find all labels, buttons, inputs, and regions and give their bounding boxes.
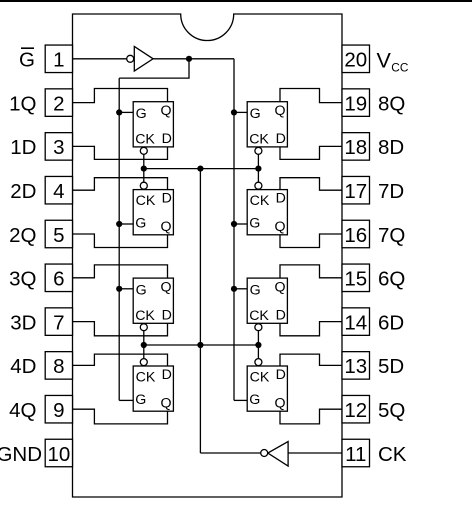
svg-text:19: 19 xyxy=(344,92,367,115)
bubble CK latch3 xyxy=(140,324,147,331)
wire pin8 4D xyxy=(73,354,168,366)
latch 8 (8D/8Q) xyxy=(247,102,287,148)
wire G stub latch1 xyxy=(119,111,133,113)
pin 12 box xyxy=(342,395,370,423)
pin 8 box xyxy=(45,352,72,380)
svg-text:7: 7 xyxy=(53,311,64,334)
bubble G-bar inverter input xyxy=(127,55,134,62)
svg-text:17: 17 xyxy=(344,180,367,203)
wire pin14 6D xyxy=(280,322,342,336)
svg-text:2D: 2D xyxy=(10,180,36,203)
wire pin6 3Q xyxy=(73,265,168,278)
svg-text:CK: CK xyxy=(136,193,156,209)
pin 6 box xyxy=(45,264,72,292)
svg-text:1Q: 1Q xyxy=(9,92,36,115)
junction left G bus latch3 xyxy=(116,286,122,292)
junction CK row B left xyxy=(141,342,147,348)
svg-text:9: 9 xyxy=(53,399,64,422)
junction CK row A left xyxy=(141,166,147,172)
latch 4 (4D/4Q) xyxy=(133,366,173,411)
svg-text:G: G xyxy=(249,216,260,232)
wire pin16 7Q xyxy=(280,234,342,248)
svg-text:CC: CC xyxy=(391,60,409,74)
svg-text:CK: CK xyxy=(250,193,270,209)
svg-text:5Q: 5Q xyxy=(378,399,405,422)
svg-text:6: 6 xyxy=(53,268,64,291)
wire G stub latch5 xyxy=(234,399,247,401)
latch 1 (1D/1Q) xyxy=(133,102,173,148)
pin 2 box xyxy=(45,89,72,117)
svg-text:D: D xyxy=(276,191,286,207)
svg-text:13: 13 xyxy=(344,355,367,378)
svg-text:D: D xyxy=(276,367,286,383)
pin 4 box xyxy=(45,176,72,204)
wire pin17 7D xyxy=(280,178,342,191)
bubble CK latch4 xyxy=(140,359,147,366)
junction left G bus latch1 xyxy=(116,109,122,115)
wire pin15 6Q xyxy=(280,265,342,278)
wire G stub latch8 xyxy=(234,111,247,113)
wire CK stub latch4 xyxy=(143,345,145,359)
svg-text:G: G xyxy=(250,283,261,299)
svg-text:3: 3 xyxy=(53,136,64,159)
junction CK row B bus xyxy=(197,342,203,348)
wire CK stub latch3 xyxy=(143,331,145,345)
wire pin4 2D xyxy=(73,178,168,191)
svg-text:Q: Q xyxy=(275,219,286,235)
junction right G bus latch8 xyxy=(231,109,237,115)
svg-text:5D: 5D xyxy=(378,355,404,378)
svg-text:Q: Q xyxy=(161,395,172,411)
svg-text:14: 14 xyxy=(344,311,367,334)
svg-text:G: G xyxy=(136,106,147,122)
svg-text:3Q: 3Q xyxy=(9,268,36,291)
bubble CK latch7 xyxy=(255,182,262,189)
junction CK row A right xyxy=(255,166,261,172)
svg-text:4: 4 xyxy=(53,180,64,203)
bubble CK latch5 xyxy=(255,359,262,366)
svg-text:Q: Q xyxy=(275,103,286,119)
svg-text:CK: CK xyxy=(135,132,155,148)
pin 17 box xyxy=(342,176,370,204)
svg-text:8D: 8D xyxy=(378,136,404,159)
svg-text:Q: Q xyxy=(161,219,172,235)
svg-text:4Q: 4Q xyxy=(9,399,36,422)
bubble CK latch6 xyxy=(255,324,262,331)
svg-text:GND: GND xyxy=(0,443,42,466)
svg-text:20: 20 xyxy=(344,49,367,72)
pin 11 box xyxy=(342,439,370,467)
latch 6 (6D/6Q) xyxy=(247,278,287,324)
bubble CK inverter output xyxy=(261,450,268,457)
wire pin5 2Q xyxy=(73,234,168,248)
pin 15 box xyxy=(342,264,370,292)
junction left G bus latch2 xyxy=(116,221,122,227)
junction right G bus latch7 xyxy=(231,221,237,227)
bubble CK latch2 xyxy=(140,182,147,189)
svg-text:D: D xyxy=(276,131,286,147)
wire CK stub latch5 xyxy=(257,345,259,359)
pin 18 box xyxy=(342,133,370,161)
wire CK stub latch1 xyxy=(143,154,145,168)
wire G stub latch7 xyxy=(234,223,247,225)
svg-text:D: D xyxy=(162,308,172,324)
svg-text:Q: Q xyxy=(161,103,172,119)
svg-text:4D: 4D xyxy=(10,355,36,378)
pin 3 box xyxy=(45,133,72,161)
svg-text:5: 5 xyxy=(53,224,64,247)
svg-text:D: D xyxy=(162,131,172,147)
svg-text:G: G xyxy=(250,106,261,122)
wire pin18 8D xyxy=(280,146,342,159)
wire pin12 5Q xyxy=(280,409,342,424)
svg-text:Q: Q xyxy=(275,280,286,296)
wire CK stub latch6 xyxy=(257,331,259,345)
svg-text:G: G xyxy=(19,49,35,72)
wire CK bus vertical xyxy=(199,169,201,453)
latch 5 (5D/5Q) xyxy=(247,366,287,411)
wire CK inverter output xyxy=(200,452,260,454)
svg-text:8Q: 8Q xyxy=(378,92,405,115)
wire inverter output to right G bus xyxy=(153,58,234,60)
wire pin13 5D xyxy=(280,354,342,366)
svg-text:CK: CK xyxy=(250,369,270,385)
wire G stub latch3 xyxy=(119,288,133,290)
svg-text:15: 15 xyxy=(344,268,367,291)
junction right G bus latch6 xyxy=(231,286,237,292)
latch 7 (7D/7Q) xyxy=(247,190,287,235)
svg-text:Q: Q xyxy=(275,395,286,411)
inverter U2 (G-bar buffer) triangle xyxy=(134,46,153,71)
svg-text:Q: Q xyxy=(161,280,172,296)
wire node G-enable down from junction xyxy=(119,59,189,78)
wire pin7 3D xyxy=(73,322,168,336)
bubble CK latch8 xyxy=(255,147,262,154)
inverter U3 (CK buffer) triangle xyxy=(268,442,288,467)
latch 3 (3D/3Q) xyxy=(133,278,173,324)
pin 20 box xyxy=(342,45,370,73)
pin 20 name VCC (power) xyxy=(377,49,409,75)
svg-text:D: D xyxy=(162,191,172,207)
svg-text:D: D xyxy=(276,308,286,324)
svg-text:CK: CK xyxy=(249,308,269,324)
svg-text:CK: CK xyxy=(249,132,269,148)
pin 19 box xyxy=(342,89,370,117)
svg-text:12: 12 xyxy=(344,399,367,422)
wire right G bus xyxy=(233,59,235,401)
pin 16 box xyxy=(342,220,370,248)
junction CK row B right xyxy=(255,342,261,348)
wire pin11 CK input xyxy=(288,452,342,454)
wire pin9 4Q xyxy=(73,409,168,424)
junction G-bar split xyxy=(186,56,192,62)
svg-text:G: G xyxy=(135,216,146,232)
svg-text:1D: 1D xyxy=(10,136,36,159)
svg-text:11: 11 xyxy=(345,443,366,466)
svg-text:G: G xyxy=(135,392,146,408)
svg-text:CK: CK xyxy=(136,369,156,385)
pin 14 box xyxy=(342,308,370,336)
svg-text:G: G xyxy=(249,392,260,408)
pin 1 name G-bar xyxy=(19,48,35,71)
svg-text:1: 1 xyxy=(53,49,64,72)
svg-text:6D: 6D xyxy=(378,311,404,334)
wire CK row B horizontal xyxy=(144,344,259,346)
latch 2 (2D/2Q) xyxy=(133,190,173,235)
pin 5 box xyxy=(45,220,72,248)
svg-text:18: 18 xyxy=(344,136,367,159)
wire CK stub latch7 xyxy=(257,169,259,183)
svg-text:7D: 7D xyxy=(378,180,404,203)
pin 13 box xyxy=(342,352,370,380)
svg-text:2: 2 xyxy=(53,92,64,115)
wire G stub latch4 xyxy=(119,399,133,401)
svg-text:CK: CK xyxy=(135,308,155,324)
pin 9 box xyxy=(45,395,72,423)
wire G stub latch6 xyxy=(234,288,247,290)
bubble CK latch1 xyxy=(140,147,147,154)
wire G stub latch2 xyxy=(119,223,133,225)
junction CK row A bus xyxy=(197,166,203,172)
wire CK row A horizontal xyxy=(144,168,259,170)
pin 1 box xyxy=(45,45,72,73)
wire left G bus xyxy=(118,78,120,400)
pin 7 box xyxy=(45,308,72,336)
wire CK stub latch8 xyxy=(257,154,259,168)
svg-text:10: 10 xyxy=(47,443,70,466)
svg-text:7Q: 7Q xyxy=(378,224,405,247)
IC body U1 with pin-1 notch xyxy=(73,14,343,497)
svg-text:16: 16 xyxy=(344,224,367,247)
svg-text:8: 8 xyxy=(53,355,64,378)
svg-text:3D: 3D xyxy=(10,311,36,334)
wire pin19 8Q xyxy=(280,89,342,103)
svg-text:V: V xyxy=(377,49,392,73)
svg-text:D: D xyxy=(162,367,172,383)
wire pin2 1Q xyxy=(73,89,168,103)
svg-text:2Q: 2Q xyxy=(9,224,36,247)
svg-text:CK: CK xyxy=(378,443,407,466)
wire CK stub latch2 xyxy=(143,169,145,183)
svg-text:G: G xyxy=(136,283,147,299)
wire pin3 1D xyxy=(73,146,168,159)
pin 10 box xyxy=(45,439,72,467)
svg-text:6Q: 6Q xyxy=(378,268,405,291)
wire pin1 G-bar input xyxy=(73,58,127,60)
